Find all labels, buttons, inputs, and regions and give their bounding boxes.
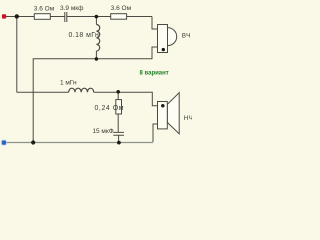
svg-text:3.6 Ом: 3.6 Ом bbox=[111, 5, 132, 12]
svg-text:0.18 мГн: 0.18 мГн bbox=[69, 32, 100, 39]
svg-text:1 мГн: 1 мГн bbox=[60, 80, 77, 87]
svg-text:0,24 Ом: 0,24 Ом bbox=[95, 105, 125, 112]
svg-text:15 мкФ: 15 мкФ bbox=[92, 128, 113, 135]
svg-text:ВЧ: ВЧ bbox=[182, 32, 191, 39]
svg-text:НЧ: НЧ bbox=[184, 115, 192, 122]
svg-text:3.9 мкф: 3.9 мкф bbox=[60, 5, 84, 12]
svg-text:3.6 Ом: 3.6 Ом bbox=[34, 5, 55, 12]
svg-text:8 вариант: 8 вариант bbox=[140, 70, 169, 76]
